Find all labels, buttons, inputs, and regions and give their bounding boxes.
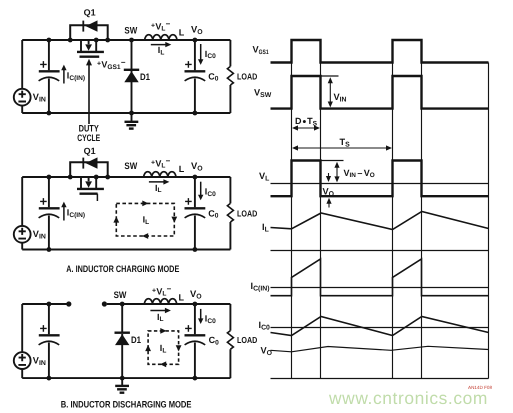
- gridline t3: [392, 63, 394, 379]
- tick VSW top level: [321, 75, 339, 77]
- gridline t2: [320, 63, 322, 379]
- label LOAD circuit1: [237, 72, 257, 82]
- waveform VO trace: [271, 346, 489, 352]
- capacitor C0 circuit2: [185, 177, 206, 250]
- svg-text:B. INDUCTOR DISCHARGING MODE: B. INDUCTOR DISCHARGING MODE: [61, 398, 192, 409]
- capacitor C0 circuit1: [185, 40, 206, 113]
- label IL circuit1: [158, 45, 165, 56]
- node dot body diode left c2: [68, 175, 73, 180]
- svg-text:VL: VL: [259, 171, 269, 183]
- label SW circuit1: [124, 24, 137, 35]
- label IL loop c2: [143, 214, 150, 225]
- inductor L3: [144, 299, 176, 305]
- waveform VSW trace: [271, 76, 489, 109]
- node dot body diode right c2: [105, 175, 110, 180]
- node dot VO c2: [193, 175, 198, 180]
- node dot D1 bottom c1: [129, 111, 134, 116]
- waveform VGS1 trace: [271, 40, 489, 63]
- loop arrow top c2: [142, 201, 148, 207]
- voltage source VIN3: [14, 352, 31, 369]
- svg-text:VIN: VIN: [33, 355, 46, 367]
- capacitor CIN1: [39, 40, 60, 113]
- svg-text:LOAD: LOAD: [237, 72, 257, 82]
- node dot body diode right c1: [105, 38, 110, 43]
- loop arrow right c3: [176, 345, 182, 351]
- node dot open switch left end c3: [66, 301, 71, 306]
- svg-text:+VL−: +VL−: [152, 285, 172, 298]
- label IL circuit2: [155, 183, 162, 194]
- svg-text:IC0: IC0: [205, 187, 216, 198]
- label C0 circuit1: [208, 71, 219, 82]
- svg-text:IL: IL: [143, 214, 150, 225]
- zero axis IL: [271, 250, 489, 252]
- svg-text:VGS1: VGS1: [253, 45, 269, 57]
- svg-text:TS: TS: [340, 137, 351, 149]
- dimension arrow VIN-VO on VL: [334, 162, 339, 183]
- svg-text:IC(IN): IC(IN): [251, 281, 270, 293]
- svg-text:VO: VO: [191, 23, 203, 36]
- svg-text:CYCLE: CYCLE: [77, 132, 100, 143]
- label L circuit1: [179, 27, 185, 37]
- tick VL top level: [321, 160, 344, 162]
- svg-text:D●TS: D●TS: [295, 116, 318, 127]
- label LOAD circuit3: [237, 335, 257, 345]
- label VGS1 circuit1: [97, 58, 126, 71]
- dimension arrow VO lower on VL: [326, 198, 331, 208]
- label IC(IN)1: [67, 71, 85, 82]
- label C0 circuit3: [209, 335, 220, 346]
- wire left column VIN2: [21, 177, 23, 250]
- body diode Q1 circuit1: [70, 20, 108, 40]
- label VO circuit3: [190, 288, 202, 301]
- CIRCUIT1: [14, 8, 257, 144]
- caption A: [66, 263, 179, 274]
- wire left column VIN3: [21, 304, 23, 378]
- current arrow IC0 circuit3: [198, 309, 203, 324]
- CIRCUIT3: [14, 285, 257, 410]
- loop arrow right c2: [171, 217, 177, 223]
- node dot cap top c1: [47, 38, 52, 43]
- label VO circuit1: [191, 23, 203, 36]
- label SW circuit2: [124, 160, 137, 171]
- svg-text:D1: D1: [140, 71, 150, 82]
- node dot cap bottom c1: [47, 111, 52, 116]
- dimension arrow VO upper on VL: [326, 173, 331, 182]
- svg-text:Q1: Q1: [84, 146, 96, 156]
- svg-text:IL: IL: [160, 343, 167, 354]
- current arrow IC0 circuit2: [198, 182, 203, 201]
- current arrow IL circuit2: [149, 179, 170, 184]
- inductor L2: [144, 172, 176, 178]
- resistor LOAD3: [227, 304, 233, 378]
- ground circuit3: [115, 378, 129, 393]
- node dot C0 bottom c3: [193, 376, 198, 381]
- svg-text:LOAD: LOAD: [237, 209, 257, 219]
- svg-text:VO: VO: [261, 346, 273, 358]
- wire bottom rail circuit3: [22, 377, 230, 379]
- wire top rail circuit1: [22, 39, 230, 41]
- waveform IL trace: [271, 212, 489, 230]
- svg-text:+VGS1−: +VGS1−: [97, 58, 126, 71]
- capacitor CIN3: [39, 304, 60, 378]
- label C0 circuit2: [208, 208, 219, 219]
- svg-text:VIN: VIN: [334, 92, 347, 104]
- current arrow IL circuit1: [151, 42, 172, 47]
- svg-text:+VL−: +VL−: [151, 157, 171, 170]
- wire left column VIN1: [21, 40, 23, 113]
- svg-text:IC(IN): IC(IN): [67, 208, 85, 219]
- svg-text:C0: C0: [208, 208, 219, 219]
- loop arrow left c3: [145, 345, 151, 351]
- waveform IC(IN) trace: [271, 259, 489, 296]
- voltage source VIN2: [14, 226, 31, 243]
- svg-text:+VL−: +VL−: [151, 20, 171, 33]
- gridline t1: [291, 63, 293, 379]
- svg-text:VO: VO: [190, 288, 202, 301]
- current arrow IC(IN)1: [61, 65, 66, 84]
- label L circuit2: [179, 164, 185, 174]
- svg-text:IC0: IC0: [205, 49, 216, 60]
- dashed current loop IL circuit2: [116, 203, 174, 236]
- label Q1 circuit1: [84, 8, 96, 18]
- svg-text:C0: C0: [209, 335, 220, 346]
- label IC0 circuit2: [205, 187, 216, 198]
- dimension arrow D*TS: [292, 125, 320, 130]
- label Q1 circuit2: [84, 146, 96, 156]
- svg-text:IC0: IC0: [205, 314, 216, 325]
- capacitor C0 circuit3: [185, 304, 206, 378]
- current arrow IC0 circuit1: [198, 44, 203, 65]
- current arrow IL circuit3: [150, 308, 171, 313]
- node dot cap bottom c2: [47, 247, 52, 252]
- label VL circuit2: [151, 157, 171, 170]
- dashed current loop IL circuit3: [148, 331, 179, 364]
- svg-text:Q1: Q1: [84, 8, 96, 18]
- loop arrow bottom c2: [142, 233, 148, 239]
- label VL circuit1: [151, 20, 171, 33]
- diode D1 circuit1: [124, 40, 139, 113]
- ground circuit1: [125, 113, 139, 129]
- svg-text:VIN–VO: VIN–VO: [344, 168, 375, 179]
- diode D1 circuit3: [115, 304, 130, 378]
- dimension arrow VIN on VSW: [328, 77, 333, 107]
- loop arrow top c3: [160, 328, 166, 334]
- node dot cap top c2: [47, 175, 52, 180]
- label VO circuit2: [191, 160, 203, 173]
- transistor Q1 mosfet circuit2: [77, 177, 104, 201]
- svg-text:IL: IL: [157, 312, 164, 323]
- waveform IC0 trace: [271, 317, 489, 336]
- zero axis IC0: [271, 327, 489, 329]
- label IC(IN)2: [67, 208, 85, 219]
- svg-text:SW: SW: [124, 24, 137, 35]
- gate drive arrow DUTY CYCLE: [86, 59, 92, 124]
- svg-text:LOAD: LOAD: [237, 335, 257, 345]
- label D1 circuit1: [140, 71, 150, 82]
- node dot SW c1: [129, 38, 134, 43]
- voltage source VIN1: [14, 89, 31, 106]
- gridline right edge: [488, 63, 490, 379]
- resistor LOAD1: [227, 40, 233, 113]
- wire bottom rail circuit2: [22, 249, 230, 251]
- transistor Q1 mosfet circuit1: [77, 40, 104, 57]
- svg-text:VO: VO: [323, 187, 335, 199]
- caption B: [61, 398, 192, 409]
- svg-text:VO: VO: [191, 160, 203, 173]
- resistor LOAD2: [227, 177, 233, 250]
- gridline t4: [421, 63, 423, 379]
- WAVEFORMS: [271, 40, 489, 379]
- label IC0 circuit1: [205, 49, 216, 60]
- svg-text:L: L: [179, 164, 185, 174]
- zero axis VL: [271, 183, 489, 185]
- node dot cap top c3: [47, 302, 52, 307]
- svg-text:L: L: [179, 292, 185, 302]
- svg-text:IC(IN): IC(IN): [67, 71, 85, 82]
- node dot cap bottom c3: [47, 376, 52, 381]
- svg-text:IL: IL: [262, 222, 269, 234]
- inductor L1: [145, 35, 177, 41]
- label VL circuit3: [152, 285, 172, 298]
- current arrow IC(IN)2: [61, 202, 66, 221]
- label L circuit3: [179, 292, 185, 302]
- label SW circuit3: [114, 289, 127, 300]
- zero axis IC(IN): [271, 287, 489, 289]
- capacitor CIN2: [39, 177, 60, 250]
- body diode Q1 circuit2: [70, 157, 108, 177]
- wire top rail right circuit3: [107, 303, 230, 305]
- svg-text:SW: SW: [114, 289, 127, 300]
- node dot VO c1: [193, 38, 198, 43]
- node dot C0 bottom c2: [193, 247, 198, 252]
- svg-text:IL: IL: [158, 45, 165, 56]
- label VIN3: [33, 355, 46, 367]
- svg-text:A. INDUCTOR CHARGING MODE: A. INDUCTOR CHARGING MODE: [66, 263, 179, 274]
- node dot SW c3: [120, 302, 125, 307]
- svg-text:IL: IL: [155, 183, 162, 194]
- waveform VL trace: [271, 161, 489, 197]
- svg-text:IC0: IC0: [259, 320, 271, 332]
- svg-text:www.cntronics.com: www.cntronics.com: [328, 388, 488, 408]
- label DUTY CYCLE: [77, 123, 100, 144]
- label IC0 circuit3: [205, 314, 216, 325]
- svg-text:VSW: VSW: [254, 88, 272, 100]
- node dot C0 bottom c1: [193, 111, 198, 116]
- wire top rail left circuit3: [22, 303, 69, 305]
- node dot mosfet stub c2: [94, 175, 99, 180]
- svg-text:VIN: VIN: [33, 92, 46, 104]
- CIRCUIT2: [14, 146, 257, 274]
- label VIN1: [33, 92, 46, 104]
- node dot D1 bottom c3: [120, 376, 125, 381]
- loop arrow bottom c3: [160, 361, 166, 367]
- label IL loop c3: [160, 343, 167, 354]
- label LOAD circuit2: [237, 209, 257, 219]
- node dot body diode left c1: [68, 38, 73, 43]
- wire top rail circuit2: [22, 176, 230, 178]
- svg-text:L: L: [179, 27, 185, 37]
- svg-text:C0: C0: [208, 71, 219, 82]
- svg-text:SW: SW: [124, 160, 137, 171]
- node dot VO c3: [193, 302, 198, 307]
- svg-text:VIN: VIN: [33, 229, 46, 241]
- loop arrow left c2: [113, 216, 119, 222]
- svg-text:D1: D1: [131, 334, 141, 345]
- dimension arrow TS: [292, 145, 392, 150]
- node dot open switch right end c3: [102, 301, 107, 306]
- label IL circuit3: [157, 312, 164, 323]
- label D1 circuit3: [131, 334, 141, 345]
- time axis bottom: [271, 378, 489, 380]
- label VIN2: [33, 229, 46, 241]
- wire bottom rail circuit1: [22, 112, 230, 114]
- node dot mosfet stub c1: [94, 38, 99, 43]
